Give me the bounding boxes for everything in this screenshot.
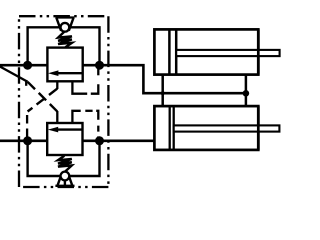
junction dot port A left [23,61,32,70]
junction bulge on line1 [161,91,165,95]
enclosure: manifold boundary top edge (dash-dot-dot) [19,15,108,17]
wire: cyl1 rod port down through line1 to cyl2 top [245,75,248,107]
check valve V1 seat bar [55,16,74,18]
wire: pilot stub into valve B top [56,111,58,123]
wire: valve B internal pilot dash [85,110,92,112]
junction dot port A right [95,61,104,70]
wire: pilot diagonal B dashed (valve A to bottom-left node) [28,89,58,112]
wire: valve A internal pilot dash [97,67,99,75]
relief valve A flow arrow [57,72,83,74]
spring of valve A [58,31,72,47]
check valve V2 seat legs [58,175,73,186]
wire: drain diagonal entering from left edge [0,64,28,82]
check valve V1 seat legs [56,18,73,31]
cylinder 2 rod [174,125,280,131]
cylinder 1 piston [169,29,176,74]
wire: cyl1 cap port down to cyl2 top [161,75,164,107]
cylinder 1 body [154,29,258,74]
wire: pilot node dash below top-left node [25,80,27,86]
cylinder 2 barrel right edge over rod [257,106,260,150]
wire: bottom bypass loop [28,141,100,176]
wire: pilot stub from valve A bottom [56,81,58,89]
wire: pilot drop dashed to port B left dot [26,115,28,140]
wire: valve A internal pilot dash L [91,84,99,94]
enclosure: left edge [18,16,20,187]
cylinder 1 rod [176,50,279,56]
enclosure: right edge [107,16,109,187]
check valve V1 ball [61,23,70,32]
check valve V2 ball [61,172,70,181]
wire: valve B internal pilot solid elbow [72,111,80,123]
relief valve B flow arrow [56,128,82,130]
wire: valve A internal pilot solid elbow [72,81,87,93]
spring of valve B [58,156,72,172]
wire: valve B internal pilot dash L [96,111,98,120]
wire: port line B from left edge to bottom cylinder [0,140,156,143]
relief valve B body [47,123,82,155]
check valve V2 seat bar [55,185,74,187]
cylinder 2 body [154,106,258,150]
wire: top bypass loop [28,27,100,65]
cylinder 2 piston [170,106,174,150]
junction dot port B right [95,136,104,145]
wire: pilot diagonal A dashed (top-left node to valve B) [28,82,58,112]
wire: port line A from left edge to cylinder drop and across [0,65,246,93]
wire: valve B internal pilot dashes down [97,126,99,139]
junction dot on line1 [243,90,250,97]
cylinder 1 barrel right edge over rod [257,29,260,74]
junction dot port B left [23,136,32,145]
enclosure: bottom edge [19,186,108,188]
relief valve A body [47,48,82,82]
